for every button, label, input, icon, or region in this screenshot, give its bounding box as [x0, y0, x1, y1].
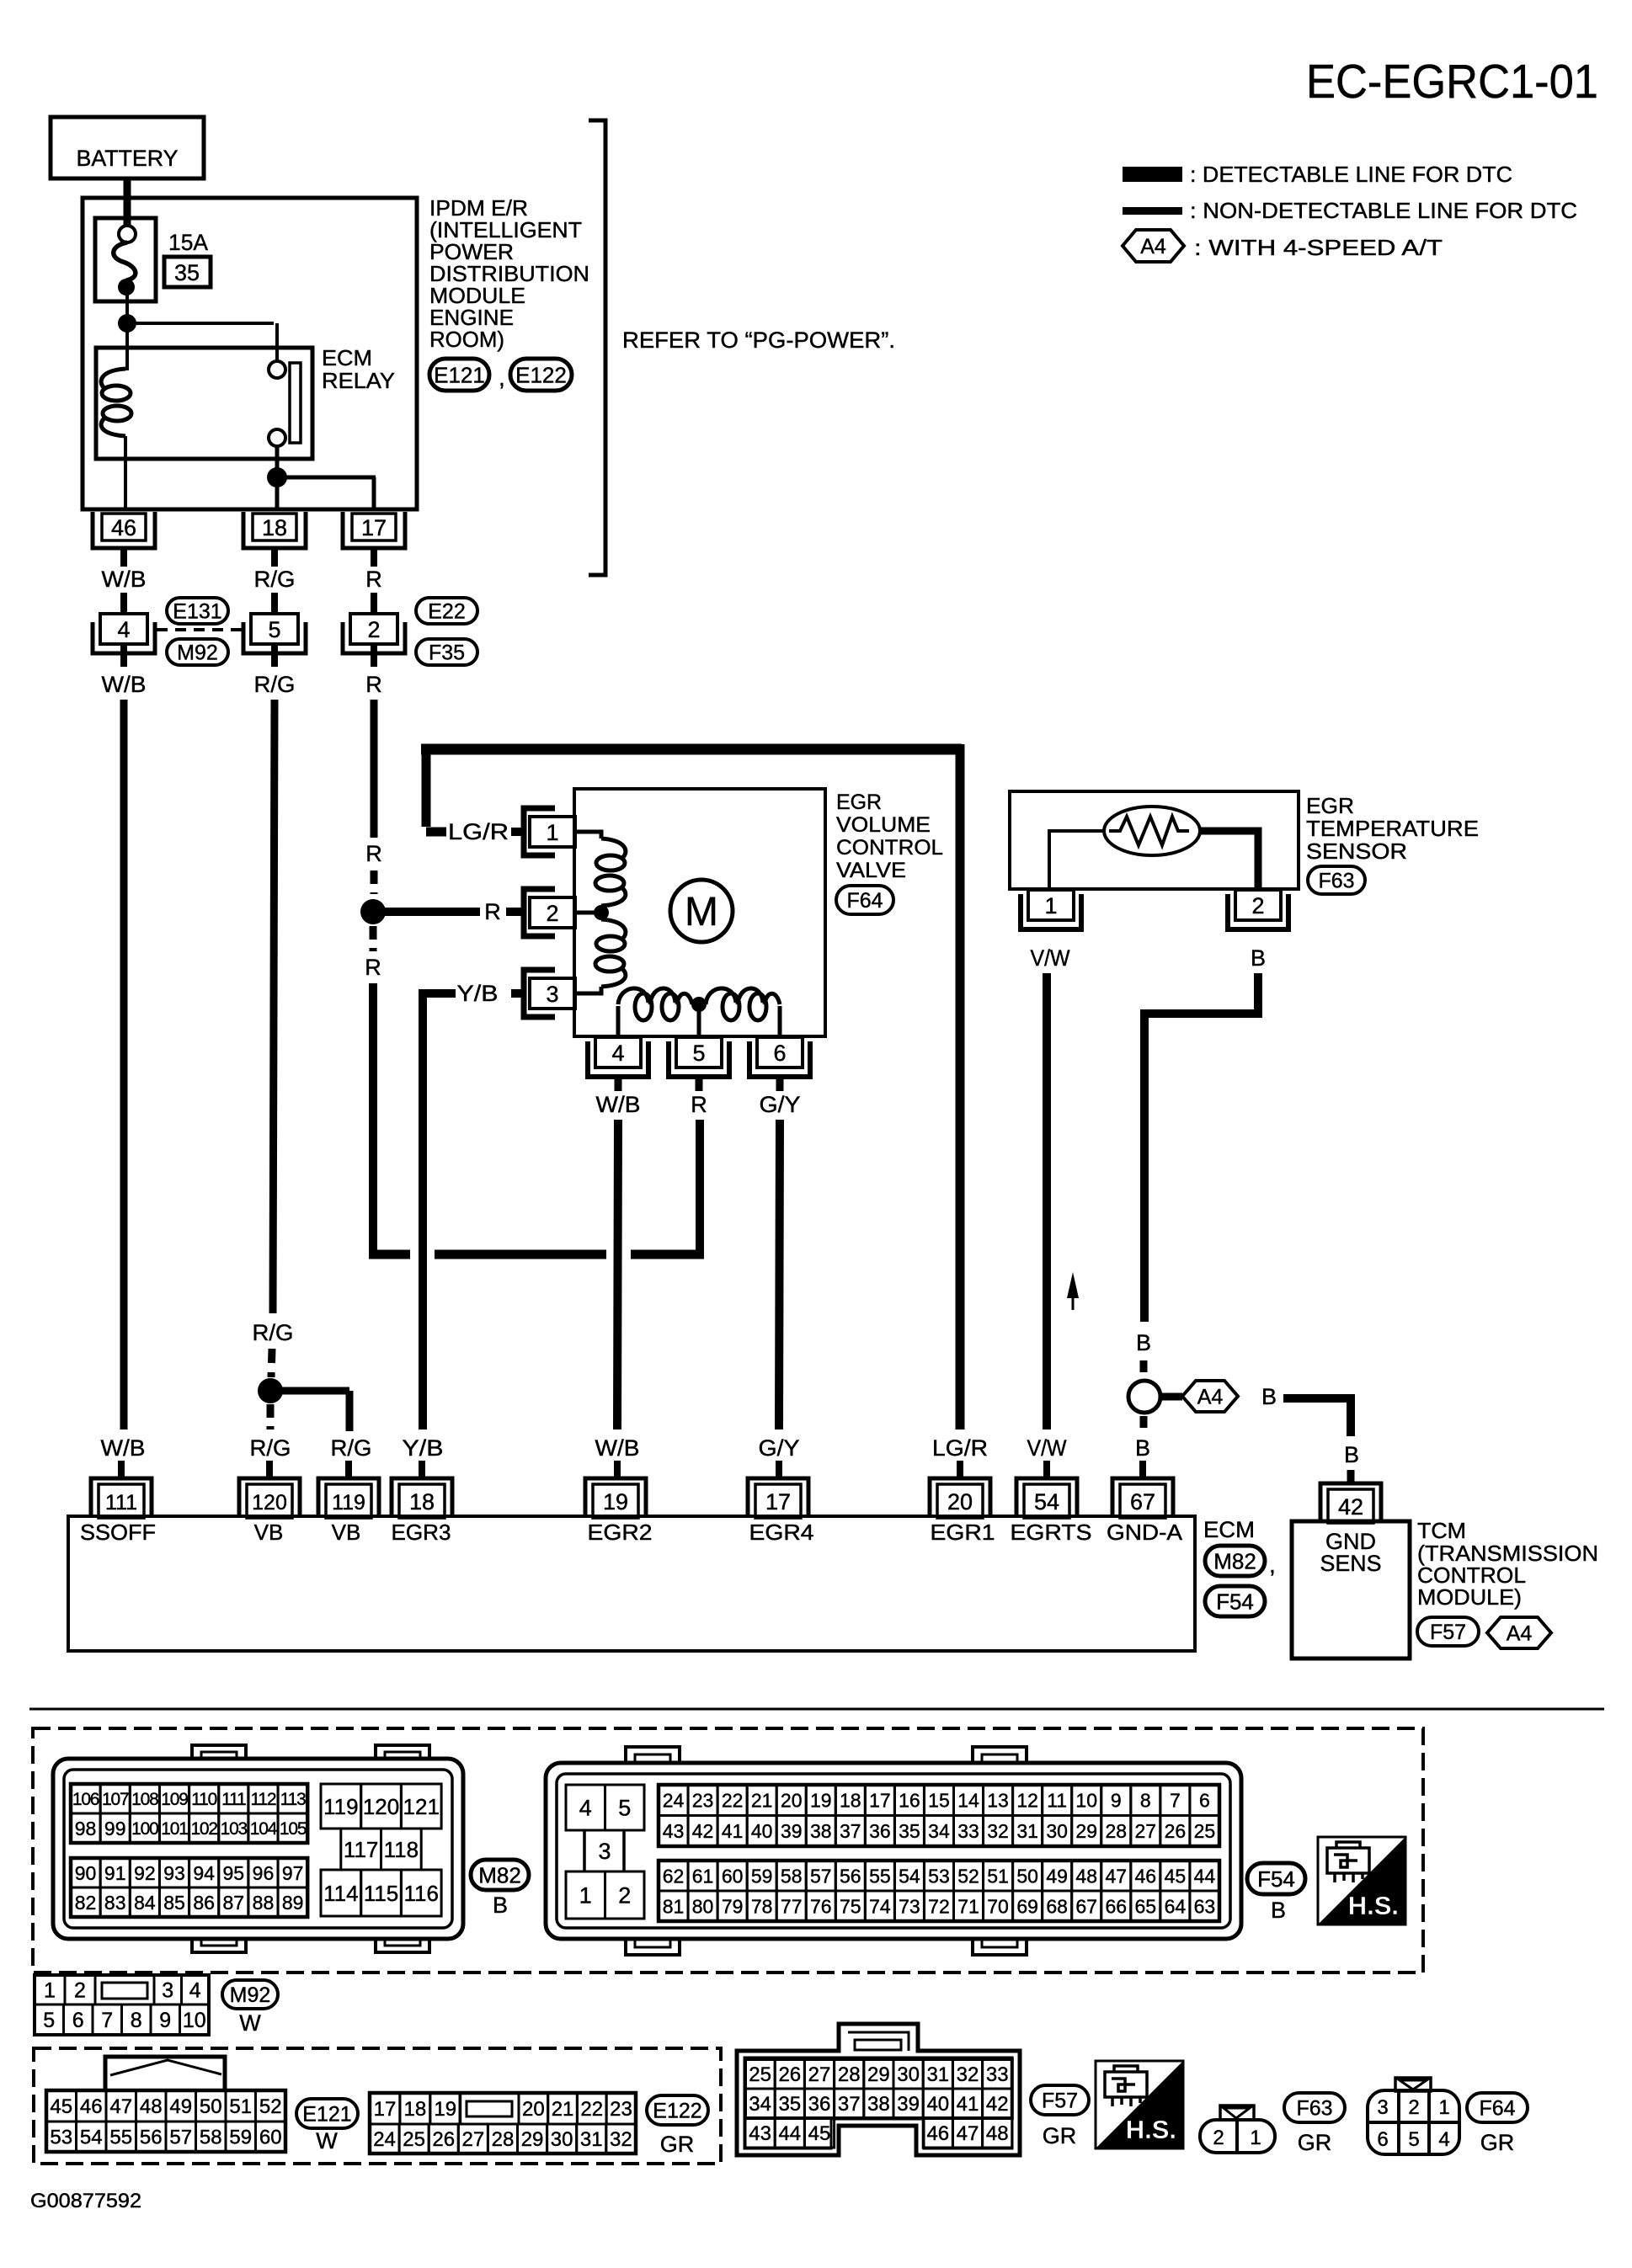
svg-text:41: 41 — [722, 1820, 744, 1842]
EGR volume control valve box — [574, 789, 825, 1036]
svg-text:118: 118 — [384, 1837, 419, 1862]
svg-text:M92: M92 — [177, 642, 218, 665]
ECM port EGR1 — [931, 1520, 995, 1545]
wire color Y/B — [457, 981, 499, 1006]
svg-text:ROOM): ROOM) — [429, 327, 504, 352]
svg-text:R/G: R/G — [254, 672, 296, 697]
svg-text:114: 114 — [323, 1881, 358, 1906]
svg-text:E121: E121 — [434, 362, 485, 387]
wire R from conn 2 — [371, 700, 378, 838]
connector face F63 — [1200, 2106, 1275, 2153]
svg-text:61: 61 — [692, 1865, 714, 1887]
svg-text:52: 52 — [259, 2095, 282, 2118]
svg-text:: WITH 4-SPEED A/T: : WITH 4-SPEED A/T — [1194, 235, 1443, 260]
svg-text:EGR1: EGR1 — [931, 1520, 995, 1545]
connector M82 oval (face) — [471, 1860, 529, 1890]
wire junction to pin 17 — [277, 477, 376, 508]
wire color G/Y — [759, 1435, 800, 1461]
svg-text:18: 18 — [262, 515, 287, 540]
svg-text:4: 4 — [611, 1041, 624, 1066]
wire B from sensor pin 2 — [1144, 945, 1266, 1322]
svg-text:47: 47 — [109, 2095, 132, 2118]
connector F35 oval — [416, 639, 477, 665]
svg-text:9: 9 — [1111, 1790, 1122, 1812]
battery — [51, 117, 204, 178]
svg-text:V/W: V/W — [1027, 1435, 1067, 1461]
svg-text:50: 50 — [1016, 1865, 1038, 1887]
wire stub valve pin 5 — [696, 1077, 703, 1091]
svg-text:R/G: R/G — [254, 567, 296, 592]
svg-text:21: 21 — [751, 1790, 773, 1812]
valve pin 5 — [669, 1037, 729, 1077]
svg-text:48: 48 — [986, 2122, 1009, 2145]
svg-text:44: 44 — [1194, 1865, 1216, 1887]
svg-text:1: 1 — [1438, 2096, 1449, 2119]
harness side symbol H.S. 2 — [1096, 2061, 1183, 2148]
svg-text:30: 30 — [1046, 1820, 1068, 1842]
svg-text:66: 66 — [1105, 1895, 1127, 1917]
svg-text:SENSOR: SENSOR — [1306, 839, 1407, 864]
ECM pin 111 — [91, 1478, 152, 1518]
svg-text:5: 5 — [618, 1796, 631, 1821]
svg-text:14: 14 — [957, 1790, 979, 1812]
connector pin 2 (E22/F35) — [343, 614, 405, 653]
sensor thermistor element — [1104, 807, 1200, 855]
svg-text:R/G: R/G — [250, 1435, 291, 1461]
svg-text:19: 19 — [434, 2098, 456, 2121]
svg-text:18: 18 — [403, 2098, 426, 2121]
svg-text:17: 17 — [361, 515, 387, 540]
svg-text:71: 71 — [957, 1895, 979, 1917]
wire color LG/R — [448, 819, 509, 844]
ECM pin 20 — [930, 1478, 990, 1518]
ECM port VB — [254, 1520, 284, 1545]
svg-text:102: 102 — [190, 1819, 217, 1839]
svg-text:35: 35 — [899, 1820, 920, 1842]
svg-text:15: 15 — [928, 1790, 950, 1812]
wire color W/B — [102, 567, 147, 592]
wire B dashed above ring — [1140, 1360, 1148, 1377]
wire R/G dashed above junction — [271, 1349, 272, 1377]
svg-text:68: 68 — [1046, 1895, 1068, 1917]
svg-text:7: 7 — [101, 2009, 113, 2032]
svg-text:F57: F57 — [1042, 2090, 1078, 2113]
svg-text:B: B — [1261, 1384, 1277, 1409]
connector M92 oval — [167, 639, 228, 665]
valve wire pin1 to coil — [575, 832, 601, 839]
svg-text:R: R — [365, 955, 381, 980]
connector face E122 — [370, 2093, 636, 2154]
svg-text:6: 6 — [1377, 2128, 1388, 2151]
wire R down to link — [369, 983, 377, 1258]
wire V/W to ECM 54 — [1043, 973, 1051, 1429]
relay contact bottom — [269, 429, 285, 446]
connector face F54 — [546, 1747, 1241, 1955]
wire stub TCM 42 — [1347, 1470, 1355, 1485]
svg-text:8: 8 — [1140, 1790, 1151, 1812]
wire stub 20 — [957, 1461, 963, 1479]
IPDM pin 46 — [93, 512, 155, 548]
wire color LG/R — [932, 1435, 988, 1461]
ECM pin 67 — [1112, 1478, 1173, 1518]
svg-text:48: 48 — [140, 2095, 163, 2118]
svg-text:107: 107 — [102, 1790, 129, 1809]
sensor wire right — [1200, 831, 1258, 889]
comma — [499, 365, 505, 391]
svg-text:72: 72 — [928, 1895, 950, 1917]
svg-text:5: 5 — [692, 1041, 705, 1066]
svg-text:GR: GR — [1043, 2123, 1077, 2148]
svg-text:24: 24 — [663, 1790, 685, 1812]
comma — [1269, 1552, 1276, 1578]
wire R dashed above junction — [371, 870, 378, 894]
svg-text:56: 56 — [840, 1865, 861, 1887]
svg-text:19: 19 — [810, 1790, 832, 1812]
svg-text:33: 33 — [957, 1820, 979, 1842]
wire R link up to valve pin 5 — [696, 1120, 704, 1259]
wire color R/G (branch) — [331, 1435, 372, 1461]
svg-text:45: 45 — [1165, 1865, 1187, 1887]
svg-text:27: 27 — [461, 2128, 484, 2151]
ECM port EGR2 — [588, 1520, 653, 1545]
svg-text:73: 73 — [899, 1895, 920, 1917]
svg-text:28: 28 — [492, 2128, 515, 2151]
wire color R — [365, 841, 382, 866]
color code GR (E122) — [660, 2132, 695, 2157]
fuse value 15A — [168, 230, 208, 255]
svg-text:E22: E22 — [428, 600, 465, 624]
svg-text:42: 42 — [1338, 1494, 1363, 1520]
svg-text:B: B — [493, 1893, 508, 1918]
svg-text:91: 91 — [104, 1862, 126, 1884]
svg-text:3: 3 — [598, 1839, 611, 1864]
svg-text:VOLUME: VOLUME — [836, 813, 931, 837]
svg-text:EGRTS: EGRTS — [1011, 1520, 1092, 1545]
wire color W/B — [596, 1092, 641, 1117]
svg-text:43: 43 — [749, 2122, 771, 2145]
wire color W/B (ECM) — [101, 1435, 146, 1461]
svg-text:5: 5 — [1408, 2128, 1419, 2151]
svg-text:16: 16 — [899, 1790, 920, 1812]
svg-text:96: 96 — [253, 1862, 275, 1884]
svg-text:12: 12 — [1016, 1790, 1038, 1812]
wire Y/B from valve pin 3 — [511, 989, 523, 998]
svg-text:2: 2 — [546, 901, 558, 926]
wire R link right — [631, 1250, 704, 1259]
IPDM pin 18 — [243, 512, 306, 548]
svg-text:54: 54 — [80, 2127, 103, 2149]
svg-text:4: 4 — [117, 617, 130, 642]
wire stub 119 — [345, 1461, 352, 1479]
valve bottom coil left riser — [616, 1006, 621, 1036]
svg-text:G00877592: G00877592 — [30, 2190, 141, 2212]
valve wire coil to pin3 — [575, 987, 601, 993]
svg-text:115: 115 — [364, 1881, 398, 1906]
valve pin 4 — [588, 1037, 648, 1077]
svg-text:H.S.: H.S. — [1348, 1891, 1399, 1920]
wire battery to IPDM fuse — [124, 178, 131, 227]
svg-text:23: 23 — [610, 2098, 632, 2121]
svg-text:42: 42 — [692, 1820, 714, 1842]
svg-text:36: 36 — [869, 1820, 891, 1842]
svg-text:VB: VB — [332, 1520, 361, 1545]
svg-text:93: 93 — [163, 1862, 185, 1884]
connector face M82 — [53, 1745, 463, 1952]
svg-text:TCM: TCM — [1417, 1518, 1466, 1543]
svg-text:88: 88 — [253, 1892, 275, 1914]
svg-text:ECM: ECM — [1203, 1517, 1255, 1542]
svg-text:15A: 15A — [168, 230, 208, 255]
svg-text:3: 3 — [546, 982, 558, 1007]
svg-text:B: B — [1136, 1330, 1151, 1355]
svg-text:R/G: R/G — [253, 1320, 294, 1345]
svg-text:EGR: EGR — [1306, 793, 1354, 818]
A4 option hexagon — [1182, 1381, 1238, 1412]
svg-text:55: 55 — [109, 2127, 132, 2149]
wire R dashed below junction — [370, 926, 377, 951]
wire W/B to ECM 111 — [120, 700, 128, 1429]
svg-text:29: 29 — [867, 2063, 890, 2086]
svg-text:97: 97 — [282, 1862, 304, 1884]
svg-text:98: 98 — [75, 1818, 97, 1839]
wire R/G dashed below junction — [267, 1404, 275, 1429]
junction R/G — [258, 1378, 283, 1403]
svg-text:75: 75 — [840, 1895, 861, 1917]
valve wire pin2 — [575, 911, 595, 915]
svg-text:F64: F64 — [1479, 2097, 1515, 2121]
svg-text:: NON-DETECTABLE LINE FOR DTC: : NON-DETECTABLE LINE FOR DTC — [1190, 198, 1577, 223]
svg-text:6: 6 — [1199, 1790, 1210, 1812]
connector E122 oval — [510, 359, 572, 391]
connector F57 oval — [1417, 1617, 1479, 1646]
relay label — [322, 345, 395, 393]
svg-text:3: 3 — [1377, 2096, 1388, 2119]
legend A4 symbol — [1123, 230, 1184, 262]
svg-text:79: 79 — [722, 1895, 744, 1917]
svg-text:51: 51 — [987, 1865, 1009, 1887]
svg-text:120: 120 — [363, 1794, 399, 1819]
svg-text:53: 53 — [50, 2127, 72, 2149]
fuse element — [114, 226, 136, 323]
svg-text:50: 50 — [200, 2095, 222, 2118]
svg-text:28: 28 — [1105, 1820, 1127, 1842]
TCM box — [1292, 1521, 1410, 1658]
wire stub 46 — [120, 548, 127, 567]
IPDM pin 17 — [343, 512, 405, 548]
svg-text:58: 58 — [781, 1865, 803, 1887]
svg-text:65: 65 — [1135, 1895, 1157, 1917]
ECM pin 119 — [318, 1478, 379, 1518]
svg-text:G/Y: G/Y — [759, 1435, 800, 1461]
svg-text:53: 53 — [928, 1865, 950, 1887]
refer to PG-POWER text — [622, 327, 895, 353]
ECM port EGR4 — [749, 1520, 814, 1545]
sensor label — [1306, 793, 1479, 864]
svg-text:51: 51 — [229, 2095, 252, 2118]
svg-text:101: 101 — [161, 1819, 188, 1839]
svg-text:22: 22 — [722, 1790, 744, 1812]
svg-text:A4: A4 — [1140, 235, 1166, 258]
valve pin 1 — [524, 808, 575, 855]
svg-text:EGR4: EGR4 — [749, 1520, 814, 1545]
svg-text:R: R — [365, 567, 382, 592]
legend detectable line sample — [1123, 167, 1182, 182]
dashed box (ECM connectors) — [33, 1728, 1423, 1973]
wire stub 67 — [1139, 1461, 1146, 1479]
TCM port GND SENS — [1320, 1529, 1382, 1576]
wire G/Y valve to ECM 17 — [779, 1120, 780, 1429]
wire color B — [1136, 1330, 1151, 1355]
harness side symbol H.S. — [1318, 1837, 1405, 1925]
svg-text:113: 113 — [280, 1790, 306, 1809]
IPDM label text — [429, 195, 589, 352]
svg-text:17: 17 — [374, 2098, 397, 2121]
svg-text:10: 10 — [183, 2009, 206, 2032]
wire R junction to valve pin 2 — [385, 899, 523, 924]
svg-text:70: 70 — [987, 1895, 1009, 1917]
IPDM E/R box — [83, 198, 417, 509]
svg-text:25: 25 — [1194, 1820, 1216, 1842]
svg-text:30: 30 — [897, 2063, 920, 2086]
svg-text:89: 89 — [282, 1892, 304, 1914]
valve bottom coil junction — [691, 997, 707, 1036]
svg-text:26: 26 — [778, 2063, 801, 2086]
wire R link mid — [435, 1250, 606, 1259]
wire color R — [365, 567, 382, 592]
svg-text:VALVE: VALVE — [836, 859, 906, 882]
svg-text:34: 34 — [928, 1820, 950, 1842]
legend non-detectable line sample — [1123, 207, 1182, 215]
svg-text:45: 45 — [808, 2122, 831, 2145]
svg-text:W/B: W/B — [101, 1435, 146, 1461]
svg-text:MODULE): MODULE) — [1417, 1584, 1522, 1610]
refer-to bracket — [589, 120, 605, 575]
connector F64 oval — [836, 886, 893, 914]
svg-text:V/W: V/W — [1031, 945, 1070, 971]
wire color V/W — [1031, 945, 1070, 971]
relay coil — [101, 369, 131, 509]
wire junction to pin 18 — [275, 477, 280, 508]
svg-text:35: 35 — [778, 2093, 801, 2116]
svg-text:Y/B: Y/B — [403, 1435, 444, 1461]
svg-text:F64: F64 — [846, 889, 883, 913]
svg-text:76: 76 — [810, 1895, 832, 1917]
wire color W/B below 4 — [102, 644, 147, 697]
svg-text:78: 78 — [751, 1895, 773, 1917]
svg-text:31: 31 — [580, 2128, 603, 2151]
svg-text:2: 2 — [1251, 893, 1264, 918]
svg-text:20: 20 — [781, 1790, 803, 1812]
svg-text:17: 17 — [869, 1790, 891, 1812]
sensor pin 1 — [1021, 890, 1081, 929]
ECM pin 17 — [748, 1478, 808, 1518]
svg-text:R: R — [365, 841, 382, 866]
wire color B — [1135, 1435, 1150, 1461]
valve coil upper — [595, 839, 626, 906]
svg-text:48: 48 — [1075, 1865, 1097, 1887]
svg-text:112: 112 — [251, 1790, 276, 1809]
color code GR (F57) — [1043, 2123, 1077, 2148]
svg-text:TEMPERATURE: TEMPERATURE — [1306, 816, 1479, 841]
TCM label — [1417, 1518, 1598, 1610]
svg-text:3: 3 — [162, 1979, 173, 2003]
wire color R below 2 — [365, 644, 382, 697]
svg-text:46: 46 — [111, 515, 136, 540]
connector E121 oval — [429, 359, 489, 391]
svg-text:5: 5 — [43, 2009, 55, 2032]
connector E22 oval — [416, 598, 477, 624]
svg-text:: DETECTABLE LINE FOR DTC: : DETECTABLE LINE FOR DTC — [1190, 162, 1512, 187]
svg-text:60: 60 — [259, 2127, 282, 2149]
svg-text:W/B: W/B — [102, 567, 147, 592]
svg-text:F63: F63 — [1296, 2097, 1332, 2121]
svg-text:32: 32 — [610, 2128, 632, 2151]
wire R/G from conn 5 — [273, 700, 275, 1313]
wire LG/R right drop to ECM — [956, 744, 965, 1429]
wire color W/B — [595, 1435, 640, 1461]
dashed box (IPDM connectors) — [34, 2048, 721, 2164]
svg-text:2: 2 — [74, 1979, 86, 2003]
svg-text:84: 84 — [134, 1892, 156, 1914]
svg-text:27: 27 — [1135, 1820, 1157, 1842]
valve pin 6 — [749, 1037, 810, 1077]
svg-text:52: 52 — [957, 1865, 979, 1887]
svg-text:87: 87 — [223, 1892, 245, 1914]
svg-text:M: M — [685, 890, 718, 934]
fuse number 35 box — [164, 257, 211, 287]
svg-text:43: 43 — [663, 1820, 685, 1842]
svg-text:28: 28 — [838, 2063, 861, 2086]
svg-text:4: 4 — [189, 1979, 201, 2003]
wire R/G branch to 119 — [278, 1391, 349, 1431]
wire R link corner — [369, 1250, 410, 1259]
connector pin 5 (E131/M92) — [243, 614, 306, 653]
svg-text:25: 25 — [749, 2063, 771, 2086]
title EC-EGRC1-01 — [1306, 55, 1598, 109]
svg-text:47: 47 — [1105, 1865, 1127, 1887]
dashed link 4-5 — [157, 628, 243, 631]
svg-text:7: 7 — [1170, 1790, 1181, 1812]
svg-text:41: 41 — [957, 2093, 979, 2116]
ECM pin 120 — [239, 1478, 300, 1518]
svg-text:86: 86 — [193, 1892, 215, 1914]
svg-text:4: 4 — [1438, 2128, 1449, 2151]
svg-text:6: 6 — [773, 1041, 786, 1066]
svg-text:90: 90 — [75, 1862, 97, 1884]
svg-text:A4: A4 — [1507, 1622, 1533, 1646]
flow arrow on V/W — [1067, 1272, 1079, 1310]
svg-text:F57: F57 — [1430, 1621, 1466, 1644]
svg-text:59: 59 — [751, 1865, 773, 1887]
svg-text:31: 31 — [1016, 1820, 1038, 1842]
svg-text:121: 121 — [403, 1794, 440, 1819]
wire stub 17 — [371, 548, 377, 567]
svg-text:94: 94 — [193, 1862, 215, 1884]
junction R — [360, 899, 386, 924]
valve junction pin2 — [594, 905, 609, 920]
svg-text:46: 46 — [1135, 1865, 1157, 1887]
svg-text:29: 29 — [1075, 1820, 1097, 1842]
wire color R/G below 5 — [254, 644, 296, 697]
svg-text:R: R — [484, 899, 501, 924]
TCM pin 42 — [1320, 1483, 1381, 1523]
motor M — [670, 880, 733, 942]
svg-text:92: 92 — [134, 1862, 156, 1884]
wire color R — [691, 1092, 707, 1117]
svg-text:G/Y: G/Y — [760, 1092, 801, 1117]
wire stub 18 — [419, 1461, 425, 1479]
svg-text:18: 18 — [409, 1489, 435, 1515]
